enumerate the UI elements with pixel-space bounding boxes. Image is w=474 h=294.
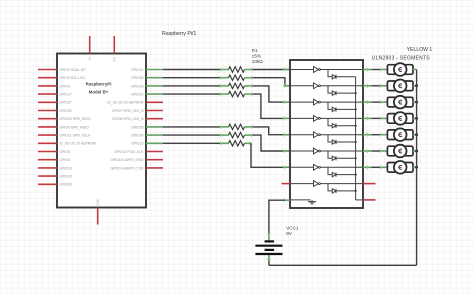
ULN2803 ground symbol: [311, 200, 313, 202]
wire ULN2803 output 7 to segment M7: [363, 166, 372, 168]
U1 left pin GPIO2 SDA1 I2C: [38, 69, 57, 71]
ULN2803 channel 2 clamp diode: [328, 86, 332, 93]
svg-text:10kΩ: 10kΩ: [252, 59, 263, 64]
ULN2803 channel 6 clamp diode: [328, 151, 332, 158]
wire segment common bus: [416, 70, 418, 266]
U1 left pin GPIO4: [38, 85, 57, 87]
wire ULN2803 output 3 to segment M3: [363, 101, 372, 103]
U1 left pin GPIO26: [38, 183, 57, 185]
wire ULN2803 output 2 to segment M2: [363, 85, 372, 87]
battery VCC1 9V: [265, 240, 275, 242]
ULN2803 channel 8 driver: [290, 183, 314, 185]
wire GPIO row GPIO12 to resistor: [163, 93, 220, 95]
junction bus M6: [415, 150, 418, 153]
svg-text:GPIO7 SPI0_CE1_N: GPIO7 SPI0_CE1_N: [112, 109, 144, 113]
U1 top pin 5V: [89, 36, 91, 54]
svg-text:GPIO8 SPI0_CE0_N: GPIO8 SPI0_CE0_N: [112, 117, 144, 121]
svg-text:ID_SC I2C ID EEPROM: ID_SC I2C ID EEPROM: [107, 101, 143, 105]
ULN2803 input pin 1 stub: [283, 69, 290, 71]
wire ULN2803 output 5 to segment M5: [363, 134, 372, 136]
ULN2803 channel 7 clamp diode: [328, 167, 332, 174]
resistor R1 element 2 (GPIO20): [220, 77, 229, 79]
wire GPIO row GPIO25 to resistor: [163, 126, 220, 128]
svg-text:GPIO18 PCM_CLK: GPIO18 PCM_CLK: [114, 150, 144, 154]
resistor R1 element 4 (GPIO12): [220, 93, 229, 95]
ULN2803 input pin 3 stub: [283, 101, 290, 103]
junction diode bus ch6: [355, 157, 357, 159]
U1 left pin GPIO6: [38, 159, 57, 161]
U1 left pin GPIO9 SPI0_MISO: [38, 126, 57, 128]
ULN2803 channel 1 driver: [290, 69, 314, 71]
ULN2803 COM pin (unconnected): [363, 199, 376, 201]
wire resistor 7 to ULN2803 input 7: [251, 143, 290, 167]
U1 right pin ID_SC I2C ID EEPROM: [146, 101, 163, 103]
ULN2803 input pin 5 stub: [283, 134, 290, 136]
svg-text:GPIO5: GPIO5: [60, 150, 70, 154]
ULN2803 channel 3 driver: [290, 101, 314, 103]
motor/segment M6: [380, 150, 388, 152]
motor/segment M2: [380, 85, 388, 87]
U1 left pin GPIO22: [38, 110, 57, 112]
svg-text:GPIO22: GPIO22: [60, 109, 72, 113]
junction diode bus ch7: [355, 174, 357, 176]
wire bus to battery negative: [269, 264, 417, 266]
wire resistor 3 to ULN2803 input 3: [253, 86, 291, 102]
wire GPIO row GPIO24 to resistor: [163, 134, 220, 136]
wire segment M4 to common bus: [413, 117, 417, 119]
svg-text:ID_SD I2C ID EEPROM: ID_SD I2C ID EEPROM: [60, 142, 96, 146]
motor/segment M5: [380, 134, 388, 136]
svg-text:GPIO17: GPIO17: [60, 93, 72, 97]
junction diode bus ch4: [355, 125, 357, 127]
motor/segment M7: [380, 166, 388, 168]
U1 left pin GPIO17: [38, 93, 57, 95]
svg-text:GPIO10 SPI0_MOSI: GPIO10 SPI0_MOSI: [60, 117, 91, 121]
svg-text:GPIO6: GPIO6: [60, 158, 70, 162]
motor/segment M1: [380, 69, 388, 71]
U1 right pin GPIO8 SPI0_CE0_N: [146, 118, 163, 120]
motor/segment M3: [380, 101, 388, 103]
wire resistor 5 to ULN2803 input 5: [253, 127, 291, 135]
svg-text:GPIO3 SCL1 I2C: GPIO3 SCL1 I2C: [60, 76, 87, 80]
svg-text:GPIO21: GPIO21: [131, 68, 143, 72]
wire ULN2803 output 1 to segment M1: [363, 69, 372, 71]
ULN2803 channel 1 clamp diode: [328, 70, 332, 77]
ULN2803 channel 3 clamp diode: [328, 102, 332, 109]
svg-text:GPIO4: GPIO4: [60, 84, 70, 88]
svg-text:R1: R1: [252, 48, 258, 53]
wire resistor 4 to ULN2803 input 4: [253, 94, 291, 118]
ULN2803 input pin 4 stub: [283, 117, 290, 119]
svg-text:GPIO16: GPIO16: [131, 84, 143, 88]
wire segment M1 to common bus: [413, 69, 417, 71]
wire segment M2 to common bus: [413, 85, 417, 87]
U1 right pin GPIO15 UART0_RXD: [146, 159, 163, 161]
wire ULN2803 GND to battery positive: [284, 199, 291, 201]
wire GPIO row GPIO20 to resistor: [163, 77, 220, 79]
wire GPIO row GPIO23 to resistor: [163, 142, 220, 144]
svg-text:GPIO11 SPI0_SCLK: GPIO11 SPI0_SCLK: [60, 134, 92, 138]
ULN2803 input pin 2 stub: [283, 85, 290, 87]
junction bus M5: [415, 133, 418, 136]
ULN2803 input 8 pin (unconnected): [282, 183, 291, 185]
svg-text:Model B+: Model B+: [89, 90, 109, 95]
ULN2803 channel 5 clamp diode: [328, 135, 332, 142]
wire GPIO row GPIO16 to resistor: [163, 85, 220, 87]
ULN2803 channel 4 driver: [290, 117, 314, 119]
ULN2803 channel 5 driver: [290, 134, 314, 136]
U1 left pin GPIO10 SPI0_MOSI: [38, 118, 57, 120]
svg-text:GND: GND: [96, 199, 100, 205]
svg-text:±5%: ±5%: [252, 53, 261, 58]
Raspberry Pi Model B+ U1 body: [57, 54, 146, 208]
svg-text:GPIO12: GPIO12: [131, 93, 143, 97]
U1 left pin GPIO3 SCL1 I2C: [38, 77, 57, 79]
svg-text:GPIO23: GPIO23: [131, 142, 143, 146]
svg-text:RaspberryPi: RaspberryPi: [86, 81, 112, 86]
ULN2803 input pin 6 stub: [283, 150, 290, 152]
svg-text:GPIO2 SDA1 I2C: GPIO2 SDA1 I2C: [60, 68, 87, 72]
U1 left pin GPIO11 SPI0_SCLK: [38, 134, 57, 136]
ULN2803 channel 6 driver: [290, 150, 314, 152]
U1 right pin GPIO21: [146, 69, 163, 71]
ULN2803 input pin 7 stub: [283, 166, 290, 168]
U1 right pin GPIO16: [146, 85, 163, 87]
wire resistor 6 to ULN2803 input 6: [253, 135, 291, 151]
junction diode bus ch8: [355, 190, 357, 192]
ULN2803 channel 4 clamp diode: [328, 118, 332, 125]
ULN2803 internal GND wire: [290, 199, 311, 201]
resistor R1 element 5 (GPIO25): [220, 126, 229, 128]
battery VCC1 negative pin: [268, 255, 270, 260]
battery VCC1 positive pin: [268, 233, 270, 241]
wire GPIO row GPIO21 to resistor: [163, 69, 220, 71]
resistor R1 element 7 (GPIO23): [220, 142, 229, 144]
ULN2803 channel 8 clamp diode: [328, 184, 332, 191]
U1 right pin GPIO20: [146, 77, 163, 79]
wire segment M5 to common bus: [413, 134, 417, 136]
motor/segment M4: [380, 117, 388, 119]
U1 right pin GPIO7 SPI0_CE1_N: [146, 110, 163, 112]
U1 right pin GPIO25: [146, 126, 163, 128]
wire segment M6 to common bus: [413, 150, 417, 152]
U1 right pin GPIO14 UART0_TXD: [146, 167, 163, 169]
U1 left pin GPIO13: [38, 167, 57, 169]
svg-text:ULN2803 - SEGMENTS: ULN2803 - SEGMENTS: [372, 55, 431, 61]
junction diode bus ch2: [355, 92, 357, 94]
svg-text:Raspberry Pi/1: Raspberry Pi/1: [162, 31, 196, 37]
svg-text:GPIO26: GPIO26: [60, 183, 72, 187]
svg-text:3V3: 3V3: [112, 57, 116, 62]
svg-text:5V: 5V: [88, 57, 92, 61]
U1 left pin GPIO27: [38, 101, 57, 103]
junction diode bus ch3: [355, 108, 357, 110]
U1 left pin ID_SD I2C ID EEPROM: [38, 142, 57, 144]
svg-text:GPIO9 SPI0_MISO: GPIO9 SPI0_MISO: [60, 125, 90, 129]
resistor R1 element 3 (GPIO16): [220, 85, 229, 87]
ULN2803 internal common diode bus: [355, 77, 357, 200]
wire ULN2803 output 4 to segment M4: [363, 117, 372, 119]
wire resistor 1 to ULN2803 input 1: [253, 69, 291, 71]
ULN2803 channel 7 driver: [290, 166, 314, 168]
svg-text:GPIO25: GPIO25: [131, 125, 143, 129]
wire ULN2803 output 6 to segment M6: [363, 150, 372, 152]
ULN2803 channel 2 driver: [290, 85, 314, 87]
junction diode bus ch5: [355, 141, 357, 143]
junction bus M7: [415, 166, 418, 169]
svg-text:GPIO24: GPIO24: [131, 134, 143, 138]
resistor R1 element 6 (GPIO24): [220, 134, 229, 136]
svg-text:VCC1: VCC1: [286, 226, 299, 231]
wire segment M7 to common bus: [413, 166, 417, 168]
junction bus M4: [415, 117, 418, 120]
U1 right pin GPIO12: [146, 93, 163, 95]
svg-text:9V: 9V: [286, 231, 293, 236]
U1 left pin GPIO19: [38, 175, 57, 177]
svg-text:GPIO20: GPIO20: [131, 76, 143, 80]
svg-text:GPIO19: GPIO19: [60, 175, 72, 179]
U1 left pin GPIO5: [38, 151, 57, 153]
svg-text:GPIO15 UART0_RXD: GPIO15 UART0_RXD: [110, 158, 144, 162]
svg-text:GPIO13: GPIO13: [60, 166, 72, 170]
U1 bottom pin GND: [97, 208, 99, 225]
svg-text:GPIO14 UART0_TXD: GPIO14 UART0_TXD: [111, 166, 144, 170]
svg-text:YELLOW 1: YELLOW 1: [407, 47, 433, 53]
svg-text:GPIO27: GPIO27: [60, 101, 72, 105]
wire resistor 2 to ULN2803 input 2: [253, 78, 291, 86]
junction bus M3: [415, 101, 418, 104]
U1 right pin GPIO24: [146, 134, 163, 136]
wire segment M3 to common bus: [413, 101, 417, 103]
U1 top pin 3V3: [113, 36, 115, 54]
resistor R1 element 1 (GPIO21): [220, 69, 229, 71]
junction bus M2: [415, 84, 418, 87]
U1 right pin GPIO18 PCM_CLK: [146, 151, 163, 153]
ULN2803 U2 body: [290, 60, 363, 208]
ULN2803 output 8 pin (unconnected): [363, 183, 376, 185]
U1 right pin GPIO23: [146, 142, 163, 144]
